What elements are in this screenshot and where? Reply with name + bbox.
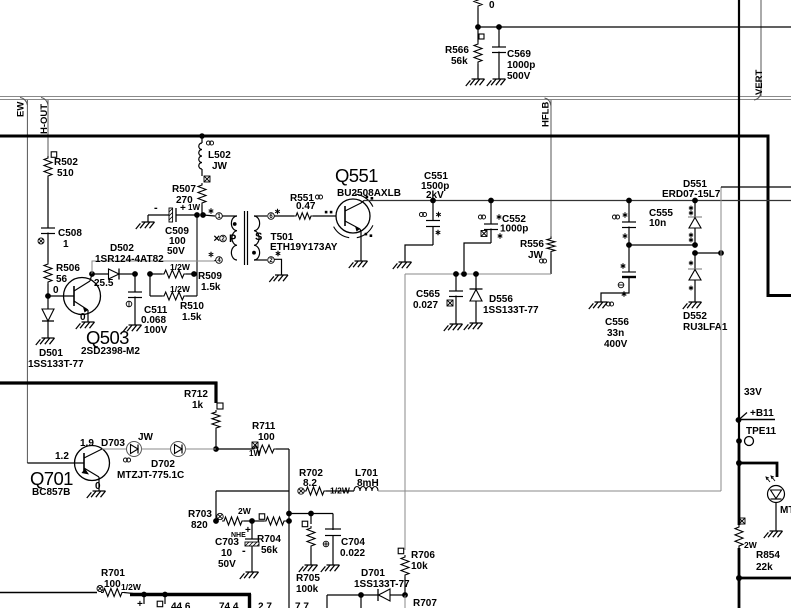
svg-text:56k: 56k <box>261 545 278 556</box>
wire: horizontal line y=27 to right edge <box>478 26 791 28</box>
wire: thick line y=383 (to R712) <box>0 381 218 384</box>
node junction D701 right <box>402 592 408 598</box>
wire: Q551 collector line y=200 <box>361 201 364 204</box>
svg-text:R707: R707 <box>413 598 437 608</box>
wire D702 to junction <box>186 448 217 450</box>
svg-text:25.5: 25.5 <box>94 278 114 289</box>
svg-text:+: + <box>137 599 143 608</box>
node junction (R509 right) <box>191 271 197 277</box>
diode D703 JW (circled) <box>127 442 142 457</box>
resistor R510 1.5k 1/2W <box>149 274 151 296</box>
capacitor C551 1500p 2kV <box>432 201 434 221</box>
svg-text:C565: C565 <box>416 289 440 300</box>
svg-text:MT: MT <box>780 505 791 516</box>
wire C555 junction to D551 junction <box>629 244 695 246</box>
ground (R566) <box>466 79 485 86</box>
svg-text:0: 0 <box>80 312 86 323</box>
ground (C704) <box>321 565 340 572</box>
svg-text:2W: 2W <box>744 540 758 550</box>
node junction C555/C556 <box>626 242 632 248</box>
node junction R566 top <box>475 24 481 30</box>
ground (Q551 emitter) <box>349 261 368 268</box>
svg-text:1.5k: 1.5k <box>182 312 202 323</box>
svg-text:S: S <box>255 231 262 243</box>
ground (C565) <box>444 324 463 331</box>
resistor (top, value 0, partially cut) <box>474 0 482 8</box>
wire C508 to R506 <box>47 233 49 263</box>
svg-text:R854: R854 <box>756 550 780 561</box>
capacitor C556 33n 400V <box>628 245 630 272</box>
svg-text:D702: D702 <box>151 459 175 470</box>
svg-text:+: + <box>245 525 251 536</box>
wire R707 drop <box>404 595 406 608</box>
inductor L701 8mH <box>354 487 378 492</box>
wire L701 to riser x=721 <box>378 490 721 492</box>
capacitor C552 1000p <box>490 201 492 225</box>
svg-text:D701: D701 <box>361 568 385 579</box>
svg-text:1.9: 1.9 <box>80 438 94 449</box>
transistor Q551 BU2508AXLB <box>336 199 370 233</box>
wire R502 to C508 <box>47 178 49 228</box>
svg-text:HFLB: HFLB <box>541 102 552 127</box>
wire: riser x=721 (to FBT line) <box>720 187 722 491</box>
wire: gray drop to R706 <box>404 274 406 550</box>
node EW (bus tap and vertical wire to Q701 base) <box>20 98 27 106</box>
svg-text:2W: 2W <box>238 506 252 516</box>
svg-text:0: 0 <box>95 481 101 492</box>
wire: thick right border horizontal to edge <box>767 294 791 297</box>
svg-text:1.5k: 1.5k <box>201 282 221 293</box>
svg-text:R507: R507 <box>172 184 196 195</box>
svg-text:33V: 33V <box>744 387 762 398</box>
wire from top resistor to junction <box>477 8 479 27</box>
svg-text:400V: 400V <box>604 339 628 350</box>
svg-text:C704: C704 <box>341 537 365 548</box>
svg-text:BU2508AXLB: BU2508AXLB <box>337 188 401 199</box>
node junction C552 top <box>488 198 494 204</box>
wire Q503 emitter to ground <box>87 310 89 322</box>
node VERT (bus tap wire up to top edge) <box>754 92 761 100</box>
svg-text:R509: R509 <box>198 271 222 282</box>
capacitor C511 0.068 100V <box>134 274 136 292</box>
wire T501 pin2 to ground <box>274 259 282 275</box>
svg-text:2.7: 2.7 <box>258 602 272 608</box>
resistor R712 1k <box>217 403 223 409</box>
svg-text:R706: R706 <box>411 550 435 561</box>
node junction bottom right <box>736 575 742 581</box>
transformer T501 ETH19Y173AY <box>203 215 215 216</box>
svg-text:C703: C703 <box>215 537 239 548</box>
svg-text:1SS133T-77: 1SS133T-77 <box>483 305 539 316</box>
capacitor C704 0.022 <box>332 514 334 531</box>
svg-text:0.022: 0.022 <box>340 548 365 559</box>
wire: y=491 row (R703 link / R702 / L701) <box>216 490 289 492</box>
svg-text:33n: 33n <box>607 328 624 339</box>
capacitor C703 10 50V (electrolytic) <box>251 521 253 539</box>
resistor R551 0.47 <box>275 215 295 217</box>
svg-text:1/2W: 1/2W <box>121 582 142 592</box>
wire: node A down to R509/R510 right ends <box>196 215 198 296</box>
node junction C569 top <box>496 24 502 30</box>
svg-text:D552: D552 <box>683 311 707 322</box>
node junction D701 left branch <box>358 592 364 598</box>
svg-text:C508: C508 <box>58 228 82 239</box>
svg-text:74.4: 74.4 <box>219 602 239 608</box>
wire: thick right border vertical <box>767 135 770 297</box>
diode D501 1SS133T-77 <box>47 296 49 309</box>
svg-text:1: 1 <box>63 239 69 250</box>
svg-text:Q503: Q503 <box>86 327 129 348</box>
pin stub + <box>141 592 147 598</box>
svg-text:500V: 500V <box>507 71 531 82</box>
ground (C556) <box>589 302 608 309</box>
resistor R703 820 2W <box>213 518 219 524</box>
svg-text:0.47: 0.47 <box>296 201 316 212</box>
wire D551 junction to right riser <box>695 252 721 254</box>
svg-text:R566: R566 <box>445 45 469 56</box>
svg-text:510: 510 <box>57 168 74 179</box>
svg-text:H-OUT: H-OUT <box>39 104 50 134</box>
svg-text:JW: JW <box>138 432 154 443</box>
resistor R706 10k <box>398 548 404 554</box>
svg-text:R704: R704 <box>257 534 281 545</box>
wire thick branch to LED <box>739 463 777 477</box>
LED MT (indicator) <box>768 486 785 503</box>
svg-text:R510: R510 <box>180 301 204 312</box>
svg-text:MTZJT-775.1C: MTZJT-775.1C <box>117 470 184 481</box>
wire Q701 collector to D703 <box>100 449 102 450</box>
svg-text:Q701: Q701 <box>30 468 73 489</box>
wire: thick H-line rail y=136 <box>0 135 770 138</box>
svg-text:7.7: 7.7 <box>295 602 309 608</box>
wire Q701 emitter to ground <box>98 477 100 491</box>
capacitor C565 0.027 <box>455 274 457 291</box>
svg-text:D556: D556 <box>489 294 513 305</box>
svg-text:BC857B: BC857B <box>32 487 70 498</box>
node junction D556 <box>473 271 479 277</box>
svg-text:1/2W: 1/2W <box>170 284 191 294</box>
resistor R556 JW <box>547 237 555 254</box>
svg-text:1/2W: 1/2W <box>170 262 191 272</box>
resistor R711 100 1W <box>216 448 252 450</box>
wire D703 to D702 <box>142 448 171 450</box>
node junction riser <box>718 250 724 256</box>
svg-text:56: 56 <box>56 274 68 285</box>
svg-text:C556: C556 <box>605 317 629 328</box>
node junction R705 top <box>308 511 314 517</box>
svg-text:1000p: 1000p <box>507 60 535 71</box>
svg-text:10k: 10k <box>411 561 428 572</box>
svg-text:0.027: 0.027 <box>413 300 438 311</box>
bus line pair (horizontal signal bus) <box>0 96 791 98</box>
svg-text:JW: JW <box>212 161 228 172</box>
svg-text:P: P <box>229 233 236 245</box>
resistor R854 22k 2W <box>739 518 745 524</box>
wire: x=289 vertical (R711 to bottom) <box>288 491 290 608</box>
svg-text:R556: R556 <box>520 239 544 250</box>
wire thick to right edge <box>739 577 791 580</box>
capacitor C509 100 50V (electrolytic) <box>176 214 197 216</box>
node junction C552 drop <box>461 271 467 277</box>
ground (D501) <box>36 338 55 345</box>
node junction (R712/D702/R711) <box>213 446 219 452</box>
node junction R704 right <box>286 518 292 524</box>
transistor Q701 BC857B <box>75 446 110 481</box>
svg-text:8.2: 8.2 <box>303 478 317 489</box>
capacitor C569 1000p 500V <box>498 27 500 47</box>
svg-text:+B11: +B11 <box>750 408 774 419</box>
node junction C703 top <box>249 518 255 524</box>
diode D556 1SS133T-77 <box>475 274 477 289</box>
svg-text:0: 0 <box>489 0 495 11</box>
transistor Q503 2SD2398-M2 <box>64 278 101 315</box>
svg-text:R703: R703 <box>188 509 212 520</box>
ground (C511) <box>123 325 142 332</box>
svg-text:0: 0 <box>53 285 59 296</box>
svg-text:ERD07-15L7: ERD07-15L7 <box>662 189 721 200</box>
svg-text:R705: R705 <box>296 573 320 584</box>
node junction on rail (L502 top) <box>199 133 205 139</box>
svg-text:C569: C569 <box>507 49 531 60</box>
wire Q503 collector up <box>90 274 92 281</box>
capacitor C508 1 <box>41 228 55 234</box>
IC block (bottom, cut off) thick top edge <box>130 593 251 596</box>
resistor R705 100k <box>310 514 312 525</box>
node junction C565 <box>453 271 459 277</box>
resistor R566 56k <box>477 27 479 42</box>
ground (C703) <box>240 572 259 579</box>
svg-text:VERT: VERT <box>754 69 765 95</box>
node junction branch y=513 <box>286 511 292 517</box>
node junction (R509/R510 left) <box>147 271 153 277</box>
svg-text:1SR124-4AT82: 1SR124-4AT82 <box>95 254 164 265</box>
resistor R702 8.2 1/2W <box>298 488 304 494</box>
ground (LED) <box>764 531 783 538</box>
node junction (C511 top) <box>132 271 138 277</box>
diode D701 1SS133T-77 <box>390 594 405 596</box>
ground (T501 pin2) <box>269 275 288 282</box>
node HFLB (bus tap wire down to R556) <box>545 98 552 106</box>
wire: row y=274 (C565/D556 net) <box>405 273 551 275</box>
svg-text:100: 100 <box>258 432 275 443</box>
wire: thick +B rail lower part <box>738 441 741 525</box>
diode D502 1SR124-4AT82 <box>92 273 109 275</box>
svg-text:TPE11: TPE11 <box>746 426 776 437</box>
node A junction (R507 / C509 / T501 pin1) <box>194 212 200 218</box>
node junction C555 top <box>626 198 632 204</box>
ground (D552) <box>683 302 702 309</box>
svg-text:-: - <box>242 545 246 557</box>
ground (C569) <box>487 79 506 86</box>
resistor R506 56 <box>44 262 52 284</box>
svg-text:ETH19Y173AY: ETH19Y173AY <box>270 242 338 253</box>
svg-text:D501: D501 <box>39 348 63 359</box>
resistor R701 100 1/2W <box>0 592 97 594</box>
diode D702 MTZJT-775.1C (circled) <box>171 442 186 457</box>
diode D551 ERD07-15L7 (upper) <box>692 198 698 204</box>
node H-OUT (bus tap wire) <box>41 98 48 106</box>
svg-text:1000p: 1000p <box>500 224 528 235</box>
wire Q551 emitter to ground <box>360 229 361 261</box>
resistor R507 270 1W <box>198 183 206 205</box>
svg-text:1W: 1W <box>188 203 200 212</box>
ground (Q701) <box>87 491 106 498</box>
diode D552 RU3LFA1 (lower) <box>694 253 696 269</box>
resistor R502 510 <box>51 152 57 158</box>
ground (R705) <box>299 565 318 572</box>
svg-text:10n: 10n <box>649 218 666 229</box>
node junction LED branch <box>736 460 742 466</box>
svg-text:22k: 22k <box>756 562 773 573</box>
capacitor C555 10n <box>628 201 630 223</box>
svg-text:2kV: 2kV <box>426 190 444 201</box>
node +B11 tap <box>736 417 742 423</box>
inductor L502 JW <box>201 136 203 143</box>
svg-text:2SD2398-M2: 2SD2398-M2 <box>81 346 140 357</box>
svg-text:100V: 100V <box>144 325 168 336</box>
svg-text:R506: R506 <box>56 263 80 274</box>
node junction Q503 collector <box>89 271 95 277</box>
svg-text:+: + <box>180 203 186 214</box>
ground (D556) <box>464 323 483 330</box>
svg-text:EW: EW <box>16 102 27 117</box>
svg-text:R701: R701 <box>101 568 125 579</box>
svg-text:R711: R711 <box>252 421 276 432</box>
svg-text:Q551: Q551 <box>335 165 378 186</box>
svg-text:50V: 50V <box>218 559 236 570</box>
wire: y=187 line to right edge <box>721 186 791 188</box>
svg-text:50V: 50V <box>167 246 185 257</box>
pin stub square <box>162 592 168 598</box>
svg-text:D502: D502 <box>110 243 134 254</box>
wire: +B rail vertical (33V line) <box>738 0 740 463</box>
svg-text:1.2: 1.2 <box>55 451 69 462</box>
svg-text:1SS133T-77: 1SS133T-77 <box>28 359 84 370</box>
node junction C551 top <box>430 198 436 204</box>
ground (C509) <box>136 222 155 229</box>
svg-text:-: - <box>154 202 158 214</box>
svg-text:R502: R502 <box>54 157 78 168</box>
wire: R711 right corner down <box>288 449 290 491</box>
svg-text:1W: 1W <box>249 449 261 458</box>
svg-text:L502: L502 <box>208 150 231 161</box>
wire R506 to base node <box>47 284 49 296</box>
svg-text:R712: R712 <box>184 389 208 400</box>
svg-text:D703: D703 <box>101 438 125 449</box>
wire: corner into bottom block <box>326 595 328 608</box>
wire: Q503 collector to T501 pin4 <box>92 261 215 274</box>
svg-text:100k: 100k <box>296 584 319 595</box>
node junction D551 mid <box>692 242 698 248</box>
svg-text:100: 100 <box>104 579 121 590</box>
resistor R509 1.5k 1/2W <box>150 273 162 275</box>
svg-text:1k: 1k <box>192 400 204 411</box>
node junction (Q503 base) <box>45 293 51 299</box>
svg-text:1SS133T-77: 1SS133T-77 <box>354 579 410 590</box>
svg-text:56k: 56k <box>451 56 468 67</box>
svg-text:10: 10 <box>221 548 233 559</box>
ground (Q503 emitter) <box>76 322 95 329</box>
ground (C551) <box>393 262 412 269</box>
svg-text:8mH: 8mH <box>357 478 379 489</box>
svg-text:44.6: 44.6 <box>171 602 191 608</box>
resistor R704 56k <box>259 514 265 520</box>
svg-text:820: 820 <box>191 520 208 531</box>
